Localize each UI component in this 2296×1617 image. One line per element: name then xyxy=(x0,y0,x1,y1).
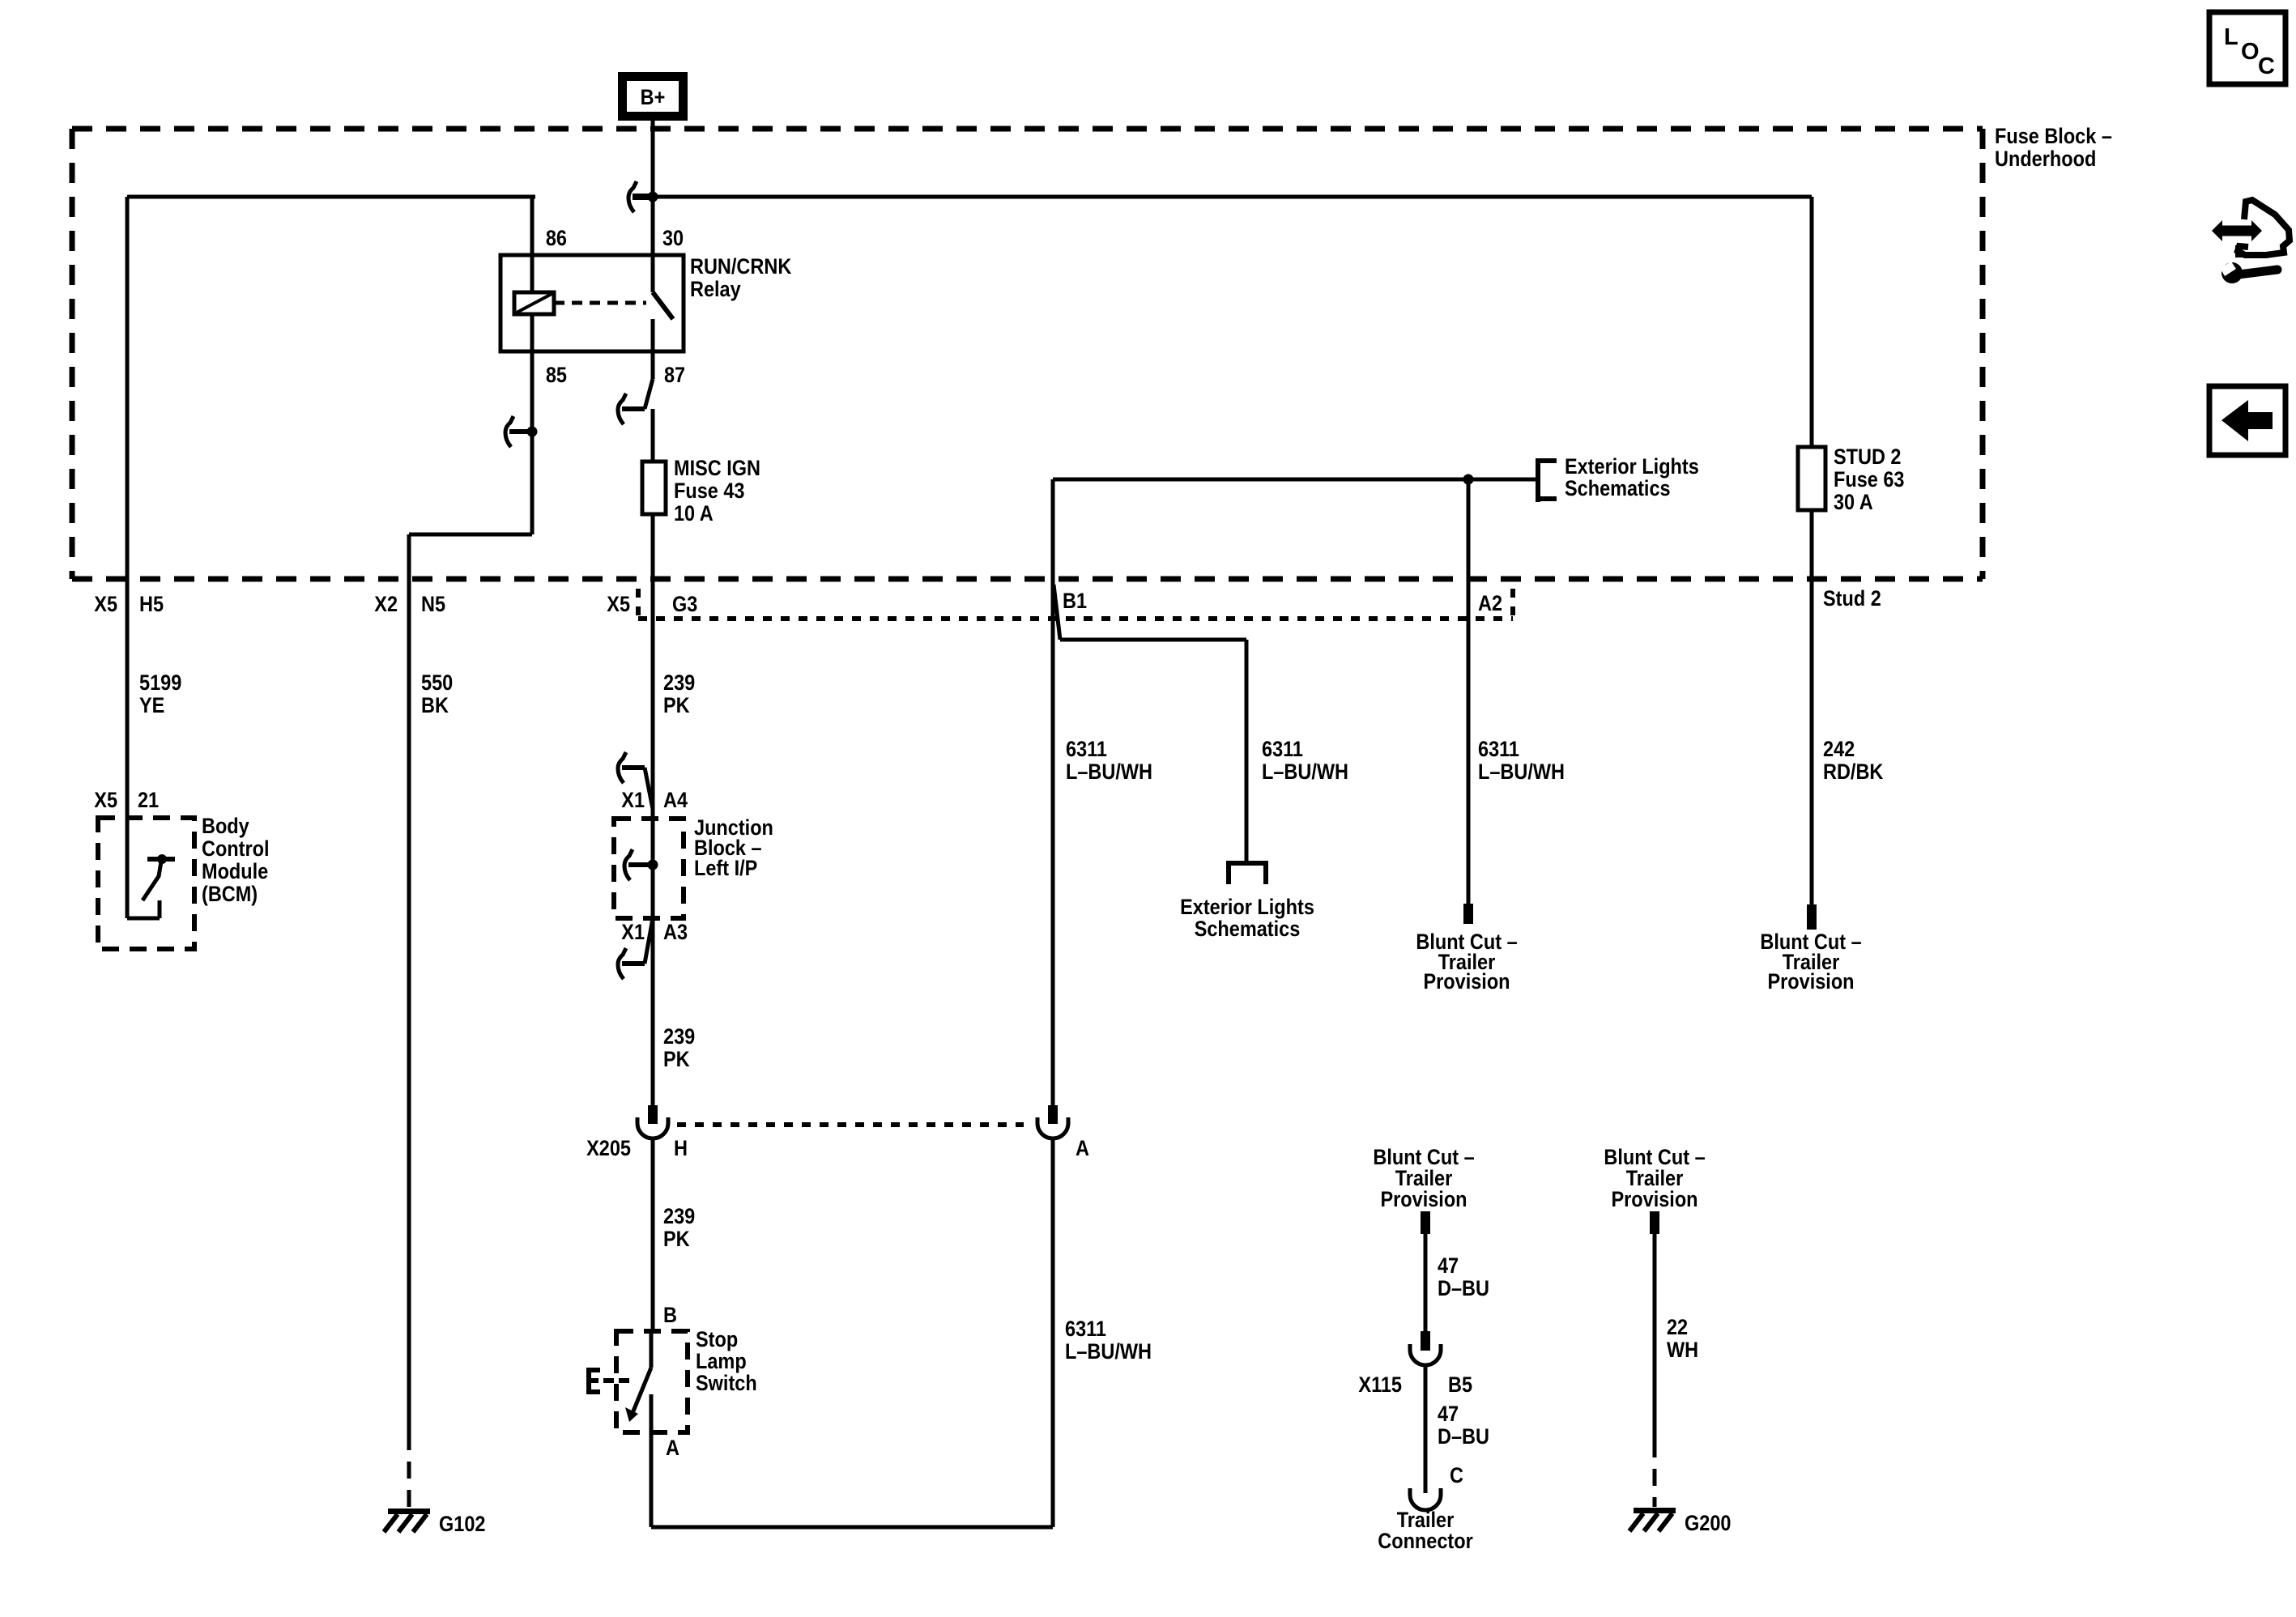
svg-text:G200: G200 xyxy=(1685,1511,1732,1535)
svg-text:6311: 6311 xyxy=(1065,1317,1106,1341)
svg-text:N5: N5 xyxy=(421,592,445,616)
svg-text:86: 86 xyxy=(546,226,567,250)
svg-text:D–BU: D–BU xyxy=(1438,1276,1489,1300)
svg-text:Provision: Provision xyxy=(1380,1187,1467,1211)
svg-text:550: 550 xyxy=(421,670,453,695)
svg-text:Fuse 43: Fuse 43 xyxy=(674,479,745,503)
svg-text:6311: 6311 xyxy=(1262,737,1303,761)
svg-text:L: L xyxy=(2224,24,2238,50)
svg-text:Lamp: Lamp xyxy=(696,1349,747,1373)
svg-text:A2: A2 xyxy=(1478,591,1502,615)
svg-text:6311: 6311 xyxy=(1066,737,1107,761)
svg-text:YE: YE xyxy=(139,693,164,717)
svg-text:A3: A3 xyxy=(663,920,688,944)
svg-text:D–BU: D–BU xyxy=(1438,1424,1489,1449)
svg-text:X1: X1 xyxy=(621,920,645,944)
svg-text:Underhood: Underhood xyxy=(1995,147,2096,171)
svg-text:Exterior Lights: Exterior Lights xyxy=(1565,454,1699,479)
svg-text:Schematics: Schematics xyxy=(1565,476,1671,500)
svg-text:H5: H5 xyxy=(139,592,164,616)
svg-text:30 A: 30 A xyxy=(1834,490,1873,514)
svg-text:A: A xyxy=(666,1436,679,1460)
svg-text:22: 22 xyxy=(1667,1315,1688,1339)
svg-text:Left I/P: Left I/P xyxy=(694,856,757,880)
svg-text:Fuse Block –: Fuse Block – xyxy=(1995,124,2112,148)
svg-text:6311: 6311 xyxy=(1478,737,1519,761)
svg-text:Stud 2: Stud 2 xyxy=(1823,586,1881,611)
svg-text:47: 47 xyxy=(1438,1402,1459,1426)
svg-text:MISC IGN: MISC IGN xyxy=(674,456,760,480)
svg-text:C: C xyxy=(2258,53,2275,79)
svg-text:21: 21 xyxy=(138,788,159,812)
svg-text:L–BU/WH: L–BU/WH xyxy=(1065,1339,1152,1364)
svg-text:Provision: Provision xyxy=(1611,1187,1698,1211)
svg-text:239: 239 xyxy=(663,1024,695,1049)
svg-text:Fuse 63: Fuse 63 xyxy=(1834,467,1905,491)
svg-text:Schematics: Schematics xyxy=(1195,917,1301,941)
svg-text:X2: X2 xyxy=(374,592,398,616)
svg-text:B+: B+ xyxy=(641,85,666,109)
svg-text:BK: BK xyxy=(421,693,449,717)
svg-text:Exterior Lights: Exterior Lights xyxy=(1180,895,1314,919)
svg-text:X5: X5 xyxy=(607,592,630,616)
svg-text:RD/BK: RD/BK xyxy=(1823,760,1884,784)
svg-text:X5: X5 xyxy=(94,592,117,616)
svg-text:PK: PK xyxy=(663,1047,690,1071)
svg-text:PK: PK xyxy=(663,1227,690,1251)
svg-text:239: 239 xyxy=(663,1204,695,1228)
svg-text:WH: WH xyxy=(1667,1338,1698,1362)
svg-text:5199: 5199 xyxy=(139,670,181,695)
svg-text:242: 242 xyxy=(1823,737,1855,761)
svg-text:30: 30 xyxy=(662,226,684,250)
svg-text:(BCM): (BCM) xyxy=(202,882,258,906)
svg-text:Control: Control xyxy=(202,836,270,861)
svg-text:G3: G3 xyxy=(672,592,697,616)
svg-text:A: A xyxy=(1076,1136,1089,1160)
svg-text:Stop: Stop xyxy=(696,1327,738,1351)
svg-text:L–BU/WH: L–BU/WH xyxy=(1066,760,1152,784)
svg-text:L–BU/WH: L–BU/WH xyxy=(1478,760,1565,784)
svg-text:C: C xyxy=(1450,1463,1463,1487)
svg-text:G102: G102 xyxy=(439,1512,486,1536)
svg-text:X205: X205 xyxy=(586,1136,631,1160)
svg-text:B1: B1 xyxy=(1063,589,1087,613)
svg-text:L–BU/WH: L–BU/WH xyxy=(1262,760,1348,784)
svg-text:O: O xyxy=(2241,39,2260,65)
svg-text:Relay: Relay xyxy=(690,277,741,301)
svg-text:10 A: 10 A xyxy=(674,501,714,526)
svg-text:X115: X115 xyxy=(1358,1372,1402,1397)
svg-text:B: B xyxy=(663,1303,677,1327)
svg-text:X1: X1 xyxy=(621,788,645,812)
svg-text:H: H xyxy=(674,1136,688,1160)
svg-text:Connector: Connector xyxy=(1378,1529,1473,1553)
svg-text:A4: A4 xyxy=(663,788,688,812)
svg-text:Switch: Switch xyxy=(696,1371,757,1395)
svg-text:Provision: Provision xyxy=(1423,969,1510,994)
svg-text:239: 239 xyxy=(663,670,695,695)
svg-text:85: 85 xyxy=(546,363,567,387)
svg-text:STUD 2: STUD 2 xyxy=(1834,445,1902,469)
svg-text:X5: X5 xyxy=(94,788,117,812)
svg-text:Body: Body xyxy=(202,814,249,838)
svg-text:PK: PK xyxy=(663,693,690,717)
svg-text:Provision: Provision xyxy=(1767,969,1854,994)
svg-text:RUN/CRNK: RUN/CRNK xyxy=(690,254,792,279)
svg-text:87: 87 xyxy=(664,363,685,387)
svg-text:B5: B5 xyxy=(1448,1372,1472,1397)
svg-text:Module: Module xyxy=(202,859,268,883)
svg-text:47: 47 xyxy=(1438,1253,1459,1278)
